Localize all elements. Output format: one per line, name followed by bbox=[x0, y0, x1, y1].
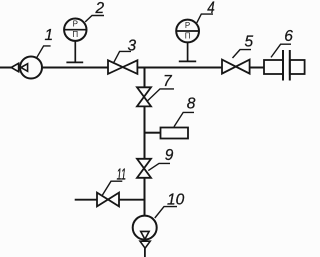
wire valve 5 to fitting 6 bbox=[250, 67, 264, 69]
gauge U2 circle bbox=[64, 19, 86, 41]
pump P10 circle bbox=[133, 216, 157, 240]
gauge U4 stem wire bbox=[187, 42, 189, 61]
gauge U2 foot bar bbox=[66, 61, 83, 63]
leader for label 4 bbox=[197, 14, 213, 23]
valve V9 bbox=[137, 159, 151, 178]
wire stub to orifice 8 bbox=[145, 132, 161, 134]
leader for label 1 bbox=[37, 46, 51, 58]
leader for label 3 bbox=[113, 51, 131, 63]
svg-text:6: 6 bbox=[284, 28, 293, 45]
valve V5 bbox=[222, 60, 250, 74]
pump P10 outlet open triangle bbox=[140, 241, 150, 248]
svg-text:4: 4 bbox=[207, 0, 215, 17]
wire junction A down to valve 7 bbox=[144, 68, 146, 88]
fitting 6 left box bbox=[264, 60, 283, 74]
svg-text:Р: Р bbox=[73, 20, 78, 29]
wire valve 7 to valve 9 bbox=[144, 106, 146, 158]
wire pump 1 to valve 3 bbox=[42, 67, 108, 69]
gauge U2 diameter line bbox=[64, 29, 86, 31]
leader for label 5 bbox=[233, 50, 252, 58]
fitting 6 flange line A bbox=[282, 50, 284, 81]
svg-text:5: 5 bbox=[245, 33, 254, 50]
gauge U4 foot bar bbox=[179, 60, 196, 62]
valve V11 bbox=[97, 193, 119, 207]
valve V7 bbox=[137, 87, 151, 106]
svg-text:П: П bbox=[185, 32, 191, 41]
wire left branch bbox=[75, 199, 97, 201]
leader for label 8 bbox=[174, 112, 194, 126]
svg-text:Р: Р bbox=[185, 21, 190, 30]
leader for label 11 bbox=[102, 181, 122, 196]
svg-text:П: П bbox=[72, 30, 78, 39]
svg-text:1: 1 bbox=[45, 27, 54, 44]
wire valve 3 to valve 5 bbox=[137, 67, 222, 69]
fitting 6 flange line B bbox=[289, 50, 291, 81]
valve V3 bbox=[108, 60, 137, 74]
pump P1 inlet open triangle bbox=[11, 63, 18, 71]
pump P10 inner triangle bbox=[141, 231, 149, 239]
svg-text:11: 11 bbox=[117, 167, 127, 184]
fitting 6 right box bbox=[290, 60, 305, 74]
svg-text:7: 7 bbox=[163, 73, 173, 90]
leader for label 9 bbox=[148, 163, 170, 170]
wire pump 10 outlet bbox=[144, 248, 146, 257]
leader for label 6 bbox=[271, 44, 291, 57]
svg-text:9: 9 bbox=[165, 147, 174, 164]
gauge U4 diameter line bbox=[176, 30, 199, 32]
pump P1 inner triangle bbox=[21, 64, 28, 72]
leader for label 7 bbox=[148, 89, 174, 101]
gauge U2 stem wire bbox=[74, 41, 76, 62]
svg-text:10: 10 bbox=[167, 191, 185, 208]
wire valve 11 to junction B bbox=[119, 199, 145, 201]
pump P1 circle bbox=[20, 57, 42, 79]
orifice 8 box bbox=[161, 128, 189, 139]
svg-text:8: 8 bbox=[187, 96, 196, 113]
wire inlet to pump 1 bbox=[0, 67, 12, 69]
leader for label 10 bbox=[155, 207, 177, 218]
gauge U4 circle bbox=[176, 20, 199, 43]
leader for label 2 bbox=[85, 16, 104, 22]
svg-text:3: 3 bbox=[128, 38, 137, 55]
wire valve 9 to pump 10 bbox=[144, 178, 146, 216]
svg-text:2: 2 bbox=[95, 0, 105, 17]
